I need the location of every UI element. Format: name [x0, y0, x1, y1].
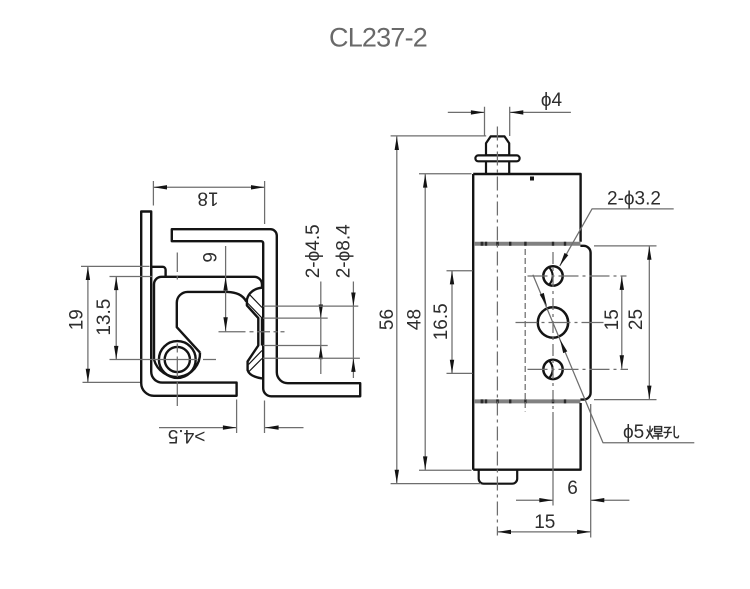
- svg-text:15: 15: [602, 309, 623, 330]
- pin centerline vertical: [176, 253, 178, 407]
- dim 9: [225, 246, 227, 332]
- svg-text:19: 19: [67, 309, 88, 330]
- right leaf C-bracket: top arm, right bar, bottom foot: [172, 229, 360, 396]
- knuckle hole wall: [261, 318, 263, 345]
- svg-text:2-ϕ4.5: 2-ϕ4.5: [303, 224, 324, 278]
- dim 16.5: [447, 271, 473, 374]
- lower section: [473, 403, 580, 470]
- leader phi5 weld hole diameter line: [533, 275, 694, 443]
- dim >4.5: [159, 400, 304, 434]
- left leaf L-plate outline: [141, 212, 236, 396]
- dim 56: [391, 136, 487, 484]
- dim 15 bottom: [497, 531, 590, 533]
- svg-text:>4.5: >4.5: [168, 425, 206, 446]
- leader 2-phi3.2: [560, 209, 674, 266]
- svg-text:2-ϕ8.4: 2-ϕ8.4: [334, 224, 355, 278]
- bottom hole h-centerline: [528, 368, 629, 370]
- body left edge: [472, 174, 474, 470]
- svg-text:25: 25: [626, 309, 647, 330]
- 孔 right hook: [674, 426, 678, 437]
- svg-text:16.5: 16.5: [431, 303, 452, 340]
- bottom hole: [543, 360, 562, 379]
- tab on top of block: [151, 267, 165, 277]
- dim 6: [516, 404, 629, 538]
- dim 15 right: [621, 276, 623, 369]
- dim 25: [594, 246, 657, 400]
- svg-text:9: 9: [201, 252, 222, 263]
- svg-text:48: 48: [404, 309, 425, 330]
- dim phi4: [448, 107, 571, 136]
- svg-text:2-ϕ3.2: 2-ϕ3.2: [607, 189, 661, 210]
- svg-text:56: 56: [377, 309, 398, 330]
- inner cutout of block: [177, 292, 247, 353]
- pin circles: [159, 341, 196, 378]
- bottom foot boss: [479, 470, 518, 484]
- middle hole: [538, 307, 568, 337]
- svg-text:ϕ4: ϕ4: [541, 90, 563, 111]
- pin washer: [475, 155, 519, 161]
- dim 2-phi8.4: [263, 282, 360, 379]
- knuckle wedge outline: [247, 288, 262, 379]
- dim 2-phi4.5: [263, 282, 328, 375]
- top hole: [543, 266, 562, 285]
- dim 48: [419, 174, 472, 470]
- hidden bend line: [524, 249, 526, 412]
- svg-text:18: 18: [197, 187, 218, 208]
- middle plate right part: [580, 246, 590, 400]
- 孔 left part 子: [664, 427, 671, 437]
- 焊 fire radical: [646, 426, 653, 438]
- upper joint gray band: [474, 242, 580, 246]
- block outer arc around pin: [154, 353, 200, 377]
- dim 18: [153, 181, 264, 224]
- top hole h-centerline: [528, 275, 627, 277]
- svg-text:6: 6: [567, 478, 578, 499]
- dim 13.5: [110, 277, 153, 360]
- dim 19: [81, 266, 150, 382]
- svg-text:13.5: 13.5: [94, 299, 115, 336]
- upper section: [473, 174, 580, 242]
- svg-text:ϕ5: ϕ5: [623, 422, 644, 443]
- pin cap: [486, 136, 509, 155]
- knuckle hatching: [248, 295, 263, 372]
- svg-text:15: 15: [534, 512, 555, 533]
- svg-text:CL237-2: CL237-2: [329, 23, 427, 53]
- pin centerline horizontal: [110, 359, 217, 361]
- left view texts: [67, 187, 355, 446]
- pin vertical centerline: [496, 127, 498, 536]
- hinge block outline: [154, 277, 262, 360]
- holes vertical centerline: [552, 252, 554, 412]
- knuckle centerline: [219, 331, 285, 333]
- right view texts: [377, 90, 661, 533]
- hanzi 焊孔 drawn as strokes: [646, 426, 678, 439]
- 焊 right part 旱: [653, 427, 662, 440]
- middle hole h-centerline: [516, 322, 606, 324]
- weld mark: [530, 177, 534, 181]
- lower joint gray band: [474, 399, 580, 403]
- pin stem: [486, 161, 509, 174]
